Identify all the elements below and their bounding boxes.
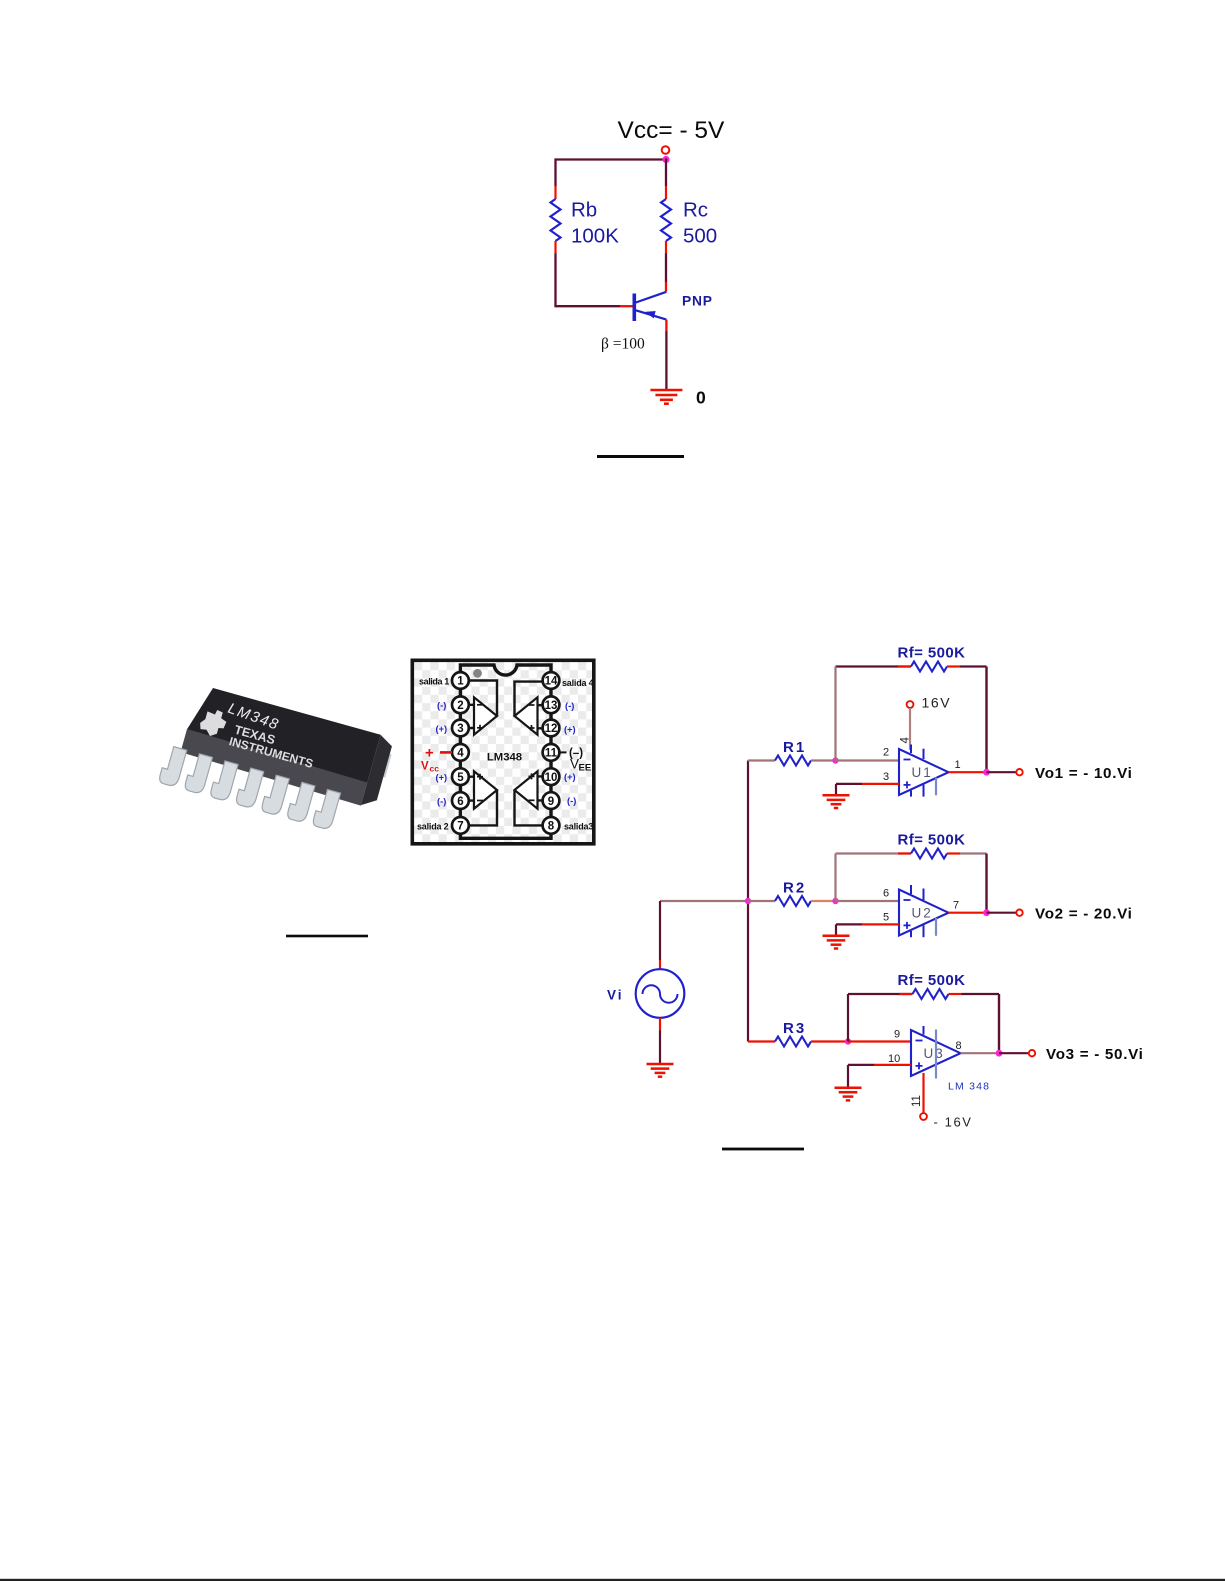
LM348 IC package photo: [158, 681, 396, 841]
wire Vi to bus horizontal: [660, 900, 748, 902]
wire Rc top vertical: [665, 158, 667, 186]
svg-text:1: 1: [955, 759, 961, 771]
svg-text:salida 2: salida 2: [417, 822, 449, 832]
svg-text:6: 6: [883, 888, 889, 900]
svg-text:5: 5: [457, 772, 464, 784]
junction output U1: [983, 769, 990, 776]
ground U1: [823, 795, 850, 808]
svg-text:8: 8: [956, 1040, 962, 1052]
svg-text:11: 11: [911, 1095, 923, 1107]
svg-text:5: 5: [883, 912, 889, 924]
power stubs U3: [923, 1026, 925, 1035]
ground U2: [823, 936, 850, 949]
wire feedback right vertical: [985, 667, 987, 773]
svg-text:100K: 100K: [571, 225, 619, 248]
svg-text:- 16V: - 16V: [934, 1115, 973, 1130]
resistor Rf1: [836, 662, 987, 672]
junction dot Vcc node: [662, 156, 669, 163]
wire non-inverting to ground: [848, 1065, 874, 1088]
wire input bus vertical: [747, 761, 749, 1042]
wire Rb top vertical: [554, 158, 556, 186]
svg-text:cc: cc: [430, 764, 440, 774]
svg-text:12: 12: [545, 723, 558, 735]
op-amp A (pins 1,2,3): [469, 681, 497, 735]
wire non-inverting input red stub: [862, 923, 899, 925]
op-amp U1: [899, 749, 949, 795]
wire base red stub: [620, 305, 633, 307]
power stub periwinkle U3: [935, 1030, 937, 1079]
power stubs U1: [911, 745, 924, 797]
Vcc marker pin 4: [421, 745, 452, 774]
svg-text:(+): (+): [564, 772, 576, 782]
wire Vcc top horizontal: [556, 158, 667, 160]
wire feedback left vertical: [834, 667, 836, 761]
op-amp C (pins 10,9,8): [515, 771, 543, 825]
ground U3: [835, 1088, 862, 1101]
wire inverting input U1: [836, 759, 900, 761]
svg-text:2: 2: [457, 700, 463, 712]
junction output U2: [983, 909, 990, 916]
resistor Rb: [551, 186, 561, 254]
wire Vi top vertical: [659, 901, 661, 960]
power stubs U2: [911, 885, 924, 937]
pin 12: [543, 720, 560, 737]
pin 14: [543, 672, 560, 689]
wire inverting input U2: [836, 900, 900, 902]
wire feedback left vertical: [847, 994, 849, 1042]
svg-text:salida 1: salida 1: [419, 677, 449, 687]
op-amp D (pins 14,13,12): [515, 682, 543, 735]
svg-text:Vcc= - 5V: Vcc= - 5V: [618, 117, 726, 144]
wire output U3: [961, 1052, 1000, 1054]
wire collector red stub: [665, 282, 667, 292]
source Vi: [636, 969, 685, 1018]
svg-text:2: 2: [883, 747, 889, 759]
svg-text:11: 11: [545, 748, 558, 760]
wire Vi top red stub: [659, 960, 661, 970]
op-amp B (pins 5,6,7): [469, 771, 497, 825]
pin-1 index dot: [473, 669, 482, 678]
svg-text:Rf= 500K: Rf= 500K: [898, 645, 966, 662]
wire output terminal U2: [987, 912, 1017, 914]
pin 5: [452, 768, 469, 785]
wire output terminal U1: [987, 771, 1017, 773]
junction bus-Vi: [745, 898, 751, 904]
resistor Rf2: [836, 849, 987, 859]
svg-text:(-): (-): [437, 796, 446, 806]
wire inverting input U3: [848, 1040, 911, 1042]
svg-text:9: 9: [548, 796, 554, 808]
pin 10: [543, 768, 560, 785]
underline below photo: [286, 935, 368, 938]
svg-text:Vo2 = - 20.Vi: Vo2 = - 20.Vi: [1035, 905, 1133, 922]
svg-text:PNP: PNP: [682, 294, 713, 309]
svg-text:14: 14: [545, 676, 558, 688]
svg-text:(+): (+): [436, 724, 448, 734]
svg-text:R2: R2: [783, 880, 806, 897]
pin 7: [452, 817, 469, 834]
terminal Vcc open circle: [662, 146, 670, 154]
wire Rb bottom vertical: [554, 254, 556, 308]
svg-text:1: 1: [457, 676, 464, 688]
junction input node U3: [845, 1038, 851, 1044]
wire Vi bottom red stub: [659, 1018, 661, 1031]
svg-text:U1: U1: [912, 765, 933, 780]
svg-text:Rb: Rb: [571, 199, 597, 222]
svg-text:3: 3: [457, 723, 463, 735]
pin 1: [452, 672, 469, 689]
wire pin 11 supply stub: [922, 1073, 924, 1113]
wire Vi bottom vertical: [659, 1031, 661, 1065]
pin 11: [543, 744, 560, 761]
svg-text:LM348: LM348: [487, 752, 522, 764]
svg-text:V: V: [421, 761, 429, 773]
power stub periwinkle U1: [935, 778, 937, 796]
wire non-inverting input red stub: [862, 783, 899, 785]
svg-text:7: 7: [457, 821, 463, 833]
wire non-inverting to ground: [836, 784, 862, 795]
resistor Rf3: [848, 989, 999, 999]
svg-text:Rf= 500K: Rf= 500K: [898, 972, 966, 989]
svg-text:500: 500: [683, 225, 717, 248]
wire supply pin 4: [909, 708, 911, 750]
svg-text:β =100: β =100: [601, 336, 645, 353]
svg-text:+: +: [425, 745, 434, 762]
terminal -16V: [920, 1113, 927, 1120]
wire feedback right vertical: [985, 854, 987, 913]
wire non-inverting to ground: [836, 924, 862, 935]
svg-text:Rf= 500K: Rf= 500K: [898, 832, 966, 849]
transistor Q1 PNP: [634, 292, 666, 321]
op-amp U2: [899, 890, 949, 936]
svg-text:U3: U3: [924, 1046, 945, 1061]
resistor R2: [748, 896, 836, 906]
pin 9: [543, 792, 560, 809]
svg-text:(+): (+): [436, 773, 448, 783]
pin 13: [543, 696, 560, 713]
svg-text:Vi: Vi: [607, 988, 624, 1003]
junction input node U1: [832, 757, 838, 763]
pin 3: [452, 720, 469, 737]
svg-text:16V: 16V: [922, 695, 952, 711]
resistor Rc: [661, 186, 671, 254]
wire output U1: [949, 771, 987, 773]
resistor R1: [748, 756, 836, 766]
svg-text:Rc: Rc: [683, 199, 708, 222]
LM348 pinout diagram frame: [412, 660, 594, 844]
svg-text:7: 7: [953, 900, 959, 912]
wire emitter vertical: [665, 331, 667, 390]
svg-text:salida 4: salida 4: [562, 678, 594, 688]
wire output terminal U3: [999, 1052, 1029, 1054]
svg-text:10: 10: [888, 1053, 900, 1065]
power stub periwinkle U2: [935, 918, 937, 936]
svg-text:0: 0: [696, 388, 706, 408]
svg-text:(-): (-): [567, 796, 576, 806]
svg-text:4: 4: [457, 748, 464, 760]
wire output U2: [949, 912, 987, 914]
terminal Vo2: [1016, 910, 1022, 916]
svg-text:4: 4: [900, 737, 912, 744]
pin 8: [543, 817, 560, 834]
pin 6: [452, 792, 469, 809]
wire feedback right vertical: [998, 994, 1000, 1053]
wire feedback left vertical: [834, 854, 836, 902]
op-amp U3: [911, 1030, 961, 1076]
svg-text:Vo1 = - 10.Vi: Vo1 = - 10.Vi: [1035, 765, 1133, 782]
svg-text:R1: R1: [783, 739, 806, 756]
svg-text:13: 13: [545, 700, 558, 712]
ground Vi: [647, 1064, 674, 1077]
wire base horizontal: [556, 305, 621, 307]
IC body outline with notch: [460, 665, 551, 838]
wire collector vertical: [665, 254, 667, 283]
svg-text:(-): (-): [565, 701, 574, 711]
svg-text:8: 8: [548, 821, 555, 833]
pin 2: [452, 696, 469, 713]
ground 0: [650, 390, 682, 404]
svg-text:10: 10: [545, 772, 558, 784]
terminal Vo3: [1029, 1050, 1035, 1056]
pin 4: [452, 744, 469, 761]
wire emitter red stub: [665, 320, 667, 331]
svg-text:EE: EE: [579, 763, 592, 774]
svg-text:R3: R3: [783, 1020, 806, 1037]
divider line under transistor circuit: [597, 455, 684, 458]
junction input node U2: [832, 898, 838, 904]
svg-text:salida3: salida3: [564, 822, 593, 832]
terminal Vo1: [1016, 769, 1022, 775]
svg-text:Vo3 = - 50.Vi: Vo3 = - 50.Vi: [1046, 1046, 1144, 1063]
svg-text:3: 3: [883, 771, 889, 783]
svg-text:LM 348: LM 348: [948, 1081, 990, 1093]
divider line under op-amp circuit: [722, 1148, 804, 1151]
wire non-inverting input red stub: [874, 1064, 911, 1066]
VEE marker pin 11: [560, 748, 592, 774]
svg-text:U2: U2: [912, 906, 933, 921]
junction output U3: [996, 1050, 1003, 1057]
svg-text:9: 9: [894, 1029, 900, 1041]
supply 16V terminal: [907, 701, 914, 708]
resistor R3: [748, 1037, 848, 1047]
svg-text:(+): (+): [564, 724, 576, 734]
svg-text:6: 6: [457, 796, 463, 808]
page footer rule: [0, 1579, 1225, 1581]
svg-text:(-): (-): [437, 701, 446, 711]
